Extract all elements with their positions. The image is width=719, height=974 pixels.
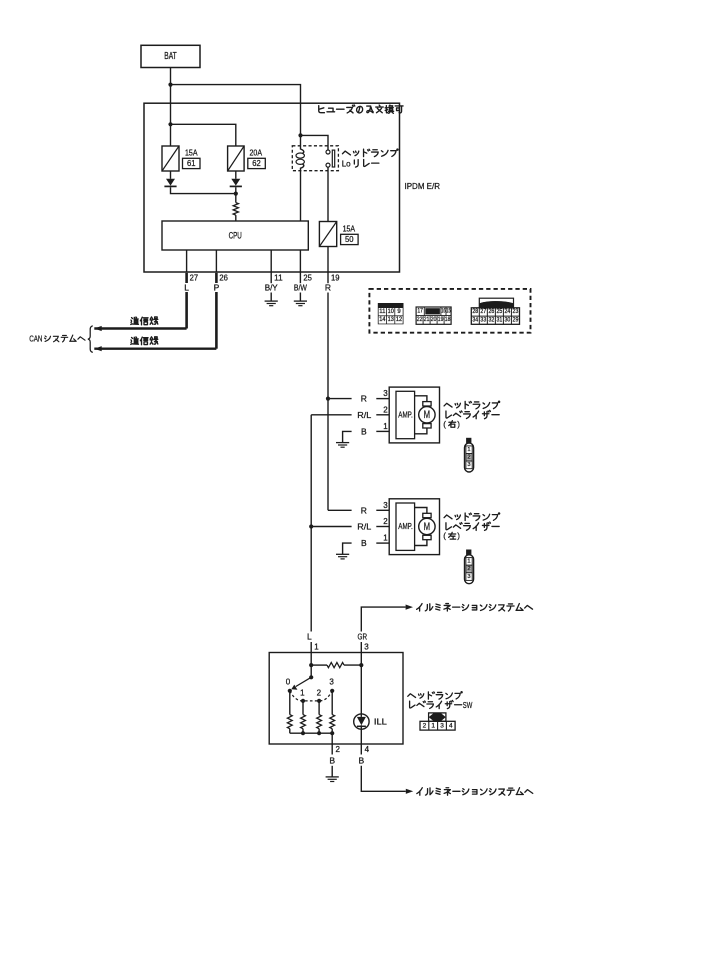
label ILL xyxy=(374,717,387,727)
wire contact to fuse 50 xyxy=(327,167,329,221)
svg-text:32: 32 xyxy=(488,317,494,323)
wire color L xyxy=(184,282,189,292)
svg-text:B/W: B/W xyxy=(294,282,307,292)
svg-text:61: 61 xyxy=(187,159,196,168)
resistor position 2 xyxy=(317,715,322,729)
wire RL corner down xyxy=(310,415,312,527)
svg-text:4: 4 xyxy=(365,745,370,754)
label actuator line1 xyxy=(444,401,500,409)
wire pin25 CPU to box edge xyxy=(299,250,301,272)
ground pin25 xyxy=(294,301,307,306)
wire pin25 stub xyxy=(299,272,301,283)
svg-text:19: 19 xyxy=(331,273,340,282)
svg-text:B: B xyxy=(358,755,364,765)
wire color B/W xyxy=(294,282,307,292)
pin number 27 xyxy=(190,273,199,282)
svg-text:29: 29 xyxy=(513,317,519,323)
label B wire xyxy=(361,426,367,436)
wire GR to ILL xyxy=(360,665,362,717)
wire R to pin3 xyxy=(328,509,389,511)
headlamp leveling switch box xyxy=(269,653,403,745)
svg-text:R/L: R/L xyxy=(357,410,371,420)
arrow illumination top xyxy=(406,605,413,610)
headlamp leveling actuator RH motor wires xyxy=(415,396,427,434)
wire contact 3 down xyxy=(331,691,333,715)
pin 3 switch xyxy=(364,642,369,651)
svg-text:Lo: Lo xyxy=(342,158,351,168)
wire color R xyxy=(325,282,331,292)
svg-text:L: L xyxy=(307,632,312,642)
svg-text:1: 1 xyxy=(300,689,305,698)
wire ILL to pin4 xyxy=(360,725,362,744)
pin 3 xyxy=(383,501,388,510)
svg-text:3: 3 xyxy=(440,722,444,729)
contact 0 xyxy=(286,678,292,693)
wire relay branch to contact xyxy=(301,135,329,150)
pin 4 below switch xyxy=(361,744,369,755)
resistor position 1 xyxy=(301,715,306,729)
svg-text:30: 30 xyxy=(505,317,511,323)
pin number 11 xyxy=(274,273,283,282)
resistor position 0 xyxy=(287,715,292,729)
svg-text:AMP.: AMP. xyxy=(398,522,413,531)
node RL branch actuator LH xyxy=(309,524,313,528)
svg-text:15A: 15A xyxy=(185,149,198,158)
label actuator line2 xyxy=(446,522,499,530)
wire coil to CPU xyxy=(300,171,302,221)
wire node to fuse 61 xyxy=(170,85,172,146)
switch connector icon xyxy=(420,713,455,730)
wire RL to pin2 xyxy=(311,414,389,416)
svg-text:): ) xyxy=(457,420,460,429)
connector view dashed box xyxy=(369,289,530,333)
svg-text:13: 13 xyxy=(388,317,395,323)
label switch line2 xyxy=(410,700,473,710)
fuse F1 15A xyxy=(162,146,179,171)
svg-text:50: 50 xyxy=(345,235,354,244)
node R branch actuator RH xyxy=(326,397,330,401)
svg-text:11: 11 xyxy=(274,273,283,282)
svg-text:31: 31 xyxy=(496,317,502,323)
wire pin19 stub xyxy=(327,272,329,283)
pin 2 below switch xyxy=(332,744,340,755)
contact 2 xyxy=(317,689,322,703)
svg-text:20A: 20A xyxy=(250,149,263,158)
wire resistor 3 to bus xyxy=(331,729,333,734)
label 15A fuse50 xyxy=(343,225,356,234)
connector block A pins 9-14 xyxy=(378,303,404,324)
pin 1 switch xyxy=(314,642,319,651)
svg-text:4: 4 xyxy=(449,722,453,729)
svg-text:11: 11 xyxy=(379,309,386,315)
diode D1 xyxy=(164,179,176,187)
svg-text:25: 25 xyxy=(496,309,502,315)
label switch line1 xyxy=(408,692,462,699)
IPDM E/R enclosure box xyxy=(144,103,400,272)
wire B to pin1 xyxy=(343,431,390,442)
svg-text:ILL: ILL xyxy=(374,717,387,727)
wire wiper stem xyxy=(310,665,312,677)
relay contact blade xyxy=(332,150,334,167)
svg-text:P: P xyxy=(214,282,220,292)
arrow CAN line1 xyxy=(94,326,101,331)
pin 1 xyxy=(383,422,388,431)
fuse number 61 xyxy=(183,158,201,168)
wire resistor 2 to bus xyxy=(318,729,320,734)
svg-text:3: 3 xyxy=(329,678,334,687)
diode D2 xyxy=(230,179,242,187)
node battery junction xyxy=(168,83,172,87)
svg-text:2: 2 xyxy=(467,455,470,461)
headlamp leveling actuator LH motor wires xyxy=(415,508,427,546)
svg-text:2: 2 xyxy=(423,722,427,729)
wire resistor 0 to bus xyxy=(289,729,291,734)
wire junction to resistor xyxy=(235,194,237,203)
svg-text:25: 25 xyxy=(303,273,312,282)
svg-text:B/Y: B/Y xyxy=(265,282,278,292)
wire contact 1 down xyxy=(302,701,304,715)
fuse F3 15A xyxy=(319,222,336,247)
wire GR to illumination top xyxy=(361,607,405,652)
resistor bus xyxy=(290,732,332,734)
pin number 25 xyxy=(303,273,312,282)
switch wiper arm xyxy=(291,677,311,690)
label wire B pin4 xyxy=(358,755,364,765)
wire RL down to switch xyxy=(310,527,312,653)
svg-text:3: 3 xyxy=(364,642,369,651)
contact 1 xyxy=(300,689,305,703)
label IPDM E/R xyxy=(405,181,441,191)
wire R main to actuator LH xyxy=(327,399,329,511)
wire CAN P thick xyxy=(94,273,216,349)
svg-text:CPU: CPU xyxy=(229,231,242,241)
wire pin4 to illumination bottom xyxy=(361,766,406,792)
rotary dashed arc xyxy=(290,691,332,701)
wire D1 to junction xyxy=(171,187,236,193)
svg-text:(: ( xyxy=(443,420,446,429)
svg-text:0: 0 xyxy=(286,678,291,687)
svg-text:3: 3 xyxy=(383,501,388,510)
svg-text:IPDM E/R: IPDM E/R xyxy=(405,181,441,191)
svg-text:33: 33 xyxy=(480,317,486,323)
pin number 19 xyxy=(331,273,340,282)
svg-text:15: 15 xyxy=(446,308,451,314)
svg-text:2: 2 xyxy=(317,689,322,698)
resistor pull-up xyxy=(233,203,238,216)
svg-text:R: R xyxy=(325,282,331,292)
svg-text:2: 2 xyxy=(336,745,341,754)
svg-text:17: 17 xyxy=(417,308,423,314)
wire CAN L thick xyxy=(94,273,186,329)
wire fuse61 to diode D1 xyxy=(170,171,172,179)
wire contact 0 down xyxy=(289,691,291,715)
label R wire xyxy=(361,505,367,515)
svg-text:1: 1 xyxy=(383,422,388,431)
wire color B/Y xyxy=(265,282,278,292)
svg-text:34: 34 xyxy=(472,317,478,323)
inline connector LH xyxy=(465,550,474,584)
node bus 1 xyxy=(301,731,305,735)
wire L pin into switch xyxy=(310,653,312,666)
wire pin11 to ground xyxy=(270,293,272,302)
ground actuator xyxy=(336,443,349,448)
svg-text:1: 1 xyxy=(467,559,470,565)
svg-text:1: 1 xyxy=(467,447,470,453)
headlamp leveling actuator LH outer box xyxy=(389,499,439,555)
headlamp leveling actuator RH AMP box xyxy=(396,391,415,438)
svg-text:(: ( xyxy=(443,532,446,541)
svg-text:26: 26 xyxy=(488,309,494,315)
CPU box xyxy=(162,221,308,250)
svg-text:27: 27 xyxy=(190,273,199,282)
battery BAT xyxy=(141,45,200,67)
node diode junction xyxy=(234,192,238,196)
wire pin11 stub xyxy=(270,272,272,283)
brace to CAN system xyxy=(88,326,93,353)
node GR junction xyxy=(359,663,363,667)
node wiper pivot xyxy=(309,675,313,679)
node fuse branch xyxy=(168,122,172,126)
wire resistor 1 to bus xyxy=(302,729,304,734)
svg-text:CAN: CAN xyxy=(29,334,42,344)
ground switch xyxy=(326,777,339,782)
arrow illumination bottom xyxy=(406,789,413,794)
wire fuse62 to diode D2 xyxy=(235,171,237,179)
svg-text:1: 1 xyxy=(314,642,319,651)
wire D2 to junction xyxy=(235,187,237,193)
svg-text:GR: GR xyxy=(358,632,368,642)
svg-text:R/L: R/L xyxy=(357,522,371,532)
connector block B pins 15-22 xyxy=(416,307,451,324)
svg-text:21: 21 xyxy=(424,317,430,323)
pin 2 xyxy=(383,517,388,526)
svg-text:15A: 15A xyxy=(343,225,356,234)
svg-text:62: 62 xyxy=(252,159,261,168)
label tsushinsen 1 xyxy=(131,317,158,325)
svg-text:2: 2 xyxy=(383,517,388,526)
label R/L wire xyxy=(357,522,371,532)
wire BAT to node xyxy=(170,68,172,85)
node bus 3 xyxy=(330,731,334,735)
svg-text:3: 3 xyxy=(383,389,388,398)
headlamp leveling actuator LH motor M xyxy=(419,513,435,539)
svg-text:18: 18 xyxy=(445,317,451,323)
relay contact circles xyxy=(326,150,330,167)
label 15A xyxy=(185,149,198,158)
svg-text:M: M xyxy=(424,409,431,421)
svg-text:10: 10 xyxy=(388,309,395,315)
svg-text:R: R xyxy=(361,505,367,515)
svg-text:20: 20 xyxy=(431,317,437,323)
wire pin11 CPU to box edge xyxy=(270,250,272,272)
label actuator side xyxy=(443,420,460,429)
ILL lamp xyxy=(354,714,369,729)
fuse F2 20A xyxy=(228,146,245,171)
headlamp leveling actuator RH outer box xyxy=(389,387,439,443)
svg-text:19: 19 xyxy=(438,317,444,323)
label R wire xyxy=(361,394,367,404)
svg-text:SW: SW xyxy=(463,700,473,710)
svg-text:14: 14 xyxy=(379,317,386,323)
svg-text:B: B xyxy=(361,538,367,548)
wire contact 2 down xyxy=(318,701,320,715)
headlamp leveling actuator LH AMP box xyxy=(396,503,415,550)
relay coil xyxy=(296,135,304,170)
pin 2 xyxy=(383,405,388,414)
label headlamp Lo relay line1 xyxy=(342,149,398,157)
svg-text:AMP.: AMP. xyxy=(398,410,413,419)
label wire L xyxy=(307,632,312,642)
wire pin19 fuse to box edge xyxy=(327,247,329,273)
contact 3 xyxy=(329,678,334,693)
ground pin11 xyxy=(265,301,278,306)
label illumination system bottom xyxy=(417,788,533,796)
svg-text:22: 22 xyxy=(417,317,423,323)
wire pin27 CPU to box edge xyxy=(186,250,188,272)
wire pin26 CPU to box edge xyxy=(215,250,217,272)
svg-text:1: 1 xyxy=(383,534,388,543)
pin number 26 xyxy=(219,273,228,282)
svg-text:27: 27 xyxy=(480,309,486,315)
inline connector RH xyxy=(465,438,474,472)
svg-text:12: 12 xyxy=(396,317,403,323)
svg-text:R: R xyxy=(361,394,367,404)
svg-text:3: 3 xyxy=(467,462,470,468)
wire node to relay branch xyxy=(171,85,301,136)
resistor position 3 xyxy=(330,715,335,729)
svg-text:3: 3 xyxy=(467,574,470,580)
wire R to pin3 xyxy=(328,398,389,400)
label fuses-only-replaceable xyxy=(319,105,403,113)
label headlamp Lo relay line2 xyxy=(342,158,379,168)
svg-text:2: 2 xyxy=(383,405,388,414)
fuse number 50 xyxy=(341,234,359,244)
label wire B pin2 xyxy=(329,755,335,765)
wire bus to pin2 xyxy=(331,733,333,744)
svg-text:2: 2 xyxy=(467,566,470,572)
svg-text:BAT: BAT xyxy=(164,51,177,62)
label actuator line2 xyxy=(446,410,499,418)
svg-text:28: 28 xyxy=(472,309,478,315)
ground actuator xyxy=(336,554,349,559)
switch resistor to GR xyxy=(311,663,361,668)
label tsushinsen 2 xyxy=(131,337,158,345)
connector block C pins 23-34 xyxy=(471,298,519,324)
svg-text:M: M xyxy=(424,521,431,533)
relay dashed box xyxy=(292,146,338,171)
svg-text:24: 24 xyxy=(505,309,511,315)
wire color P xyxy=(214,282,220,292)
fuse number 62 xyxy=(248,158,265,168)
wire B to pin1 xyxy=(343,543,390,554)
label actuator side xyxy=(443,532,460,541)
label wire GR xyxy=(358,632,368,642)
svg-text:B: B xyxy=(361,426,367,436)
node bus 2 xyxy=(317,731,321,735)
label actuator line1 xyxy=(444,513,500,521)
wire pin2 to ground xyxy=(331,766,333,777)
node relay branch xyxy=(298,133,302,137)
wire pin25 to ground xyxy=(299,293,301,302)
label 20A xyxy=(250,149,263,158)
wire RL to pin2 xyxy=(311,526,389,528)
wire GR pin into switch xyxy=(360,653,362,666)
pin 3 xyxy=(383,389,388,398)
wire branch to fuse 62 xyxy=(171,124,236,146)
label R/L wire xyxy=(357,410,371,420)
arrow CAN line2 xyxy=(94,346,101,351)
svg-text:L: L xyxy=(184,282,189,292)
svg-text:23: 23 xyxy=(513,309,519,315)
pin 1 xyxy=(383,534,388,543)
node switch input xyxy=(309,663,313,667)
headlamp leveling actuator RH motor M xyxy=(419,402,435,428)
wire resistor to CPU xyxy=(235,215,237,221)
wire R main down xyxy=(327,293,329,399)
svg-text:26: 26 xyxy=(219,273,228,282)
label B wire xyxy=(361,538,367,548)
svg-text:1: 1 xyxy=(431,722,435,729)
svg-text:16: 16 xyxy=(441,308,446,314)
label CAN system xyxy=(29,334,85,344)
label illumination system top xyxy=(417,604,533,612)
svg-text:B: B xyxy=(329,755,335,765)
svg-text:): ) xyxy=(457,532,460,541)
